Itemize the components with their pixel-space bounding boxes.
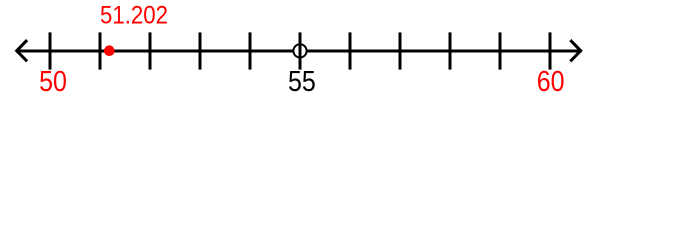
tick 54 — [249, 32, 252, 69]
wire: main horizontal number line — [16, 50, 582, 53]
tick 58 — [449, 32, 452, 69]
point marker: red dot at 51.202 — [104, 45, 115, 56]
svg-text:51.202: 51.202 — [100, 2, 168, 30]
tick 56 — [349, 32, 352, 69]
tick 55 (passes through open circle) — [299, 32, 302, 69]
left arrowhead — [17, 40, 27, 61]
right arrowhead — [570, 40, 580, 61]
svg-text:55: 55 — [288, 66, 316, 98]
svg-text:60: 60 — [537, 66, 565, 98]
tick 60 — [549, 32, 552, 69]
svg-text:50: 50 — [39, 66, 67, 98]
tick 50 — [49, 32, 52, 69]
tick 51 — [99, 32, 102, 69]
tick 52 — [149, 32, 152, 69]
tick 59 — [499, 32, 502, 69]
node: open circle at 55 (white fill hides line) — [293, 44, 306, 57]
tick 53 — [199, 32, 202, 69]
number line diagram 50-60 with point at 51.202 — [0, 0, 700, 100]
tick 57 — [399, 32, 402, 69]
